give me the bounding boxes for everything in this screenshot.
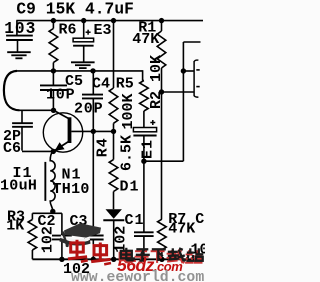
ground under C9 [7,51,31,53]
wire base to R4 node [71,130,113,132]
resistor R5 [109,88,118,123]
wire E1-C1 node to jack column [144,160,184,162]
capacitor C4 plates [82,94,103,96]
node emitter [51,149,56,154]
wire C5 bottom lead [52,90,54,110]
node rail2 / C4 column [90,68,95,73]
watermark cap tassel [63,232,67,245]
node base / C4 [91,129,96,134]
transistor Q1 collector [54,110,69,118]
svg-text:E3: E3 [94,22,112,39]
watermark site name dark text [121,251,132,258]
resistor R4 [113,131,115,159]
wire coil bottom to collector node [20,109,54,111]
svg-text:C4: C4 [92,75,110,92]
wire coil to box top [52,211,54,213]
svg-text:20P: 20P [74,101,103,118]
svg-text:10uH: 10uH [0,178,37,195]
svg-text:47K: 47K [168,220,195,237]
wire C3 bottom [92,240,94,260]
node bottom rail / C1 [141,257,146,262]
node top rail / C9 column [51,18,56,23]
watermark chong bug 1 [71,243,84,252]
wire C5 top lead [52,71,54,85]
diode D1 [106,209,122,218]
watermark graduation cap board [64,223,101,237]
svg-text:TH10: TH10 [53,181,90,198]
wire bottom ground rail [32,258,202,260]
wire R7 top [161,92,163,219]
wire D1 to bottom rail [113,220,115,259]
node top rail / E3 column [81,18,86,23]
node bottom rail / C3 [91,257,96,262]
svg-text:R5: R5 [116,75,134,92]
svg-text:100K: 100K [120,93,137,129]
jack J1 body [193,61,195,96]
wire C2 column [61,213,63,235]
transistor Q1 emitter arrow [55,142,65,151]
resistor R1 [157,31,166,68]
inductor core bar [44,162,46,201]
node top rail / R5 column [111,18,116,23]
capacitor C5 plates [40,84,67,86]
resistor R3 [31,213,33,219]
node R1/jack wire [159,89,164,94]
capacitor C1 plates [134,231,154,233]
node jack column pin1 [181,68,186,73]
ground under E3 [71,61,95,63]
wire pin1 to jack [183,70,194,72]
node coil bottom [50,209,55,214]
node rail2 / R6-C5 column [51,68,56,73]
resistor R6 [49,29,58,63]
svg-text:www.eeworld.com: www.eeworld.com [71,270,204,282]
wire C3 column [92,131,94,235]
svg-text:E1: E1 [140,139,157,159]
node bottom rail / C2 [59,257,64,262]
wire C6 bottom to emitter [21,127,23,151]
svg-text:R4: R4 [95,137,112,157]
wire rail2 corner down to R2 [142,70,144,80]
resistor R7 [158,219,167,250]
wire C4 top lead [92,71,94,94]
wire C1 top lead [143,161,145,232]
capacitor C2 plates [52,235,72,237]
wire jack column stub [183,41,200,43]
svg-text:R6: R6 [59,21,77,38]
node bottom rail / D1 [111,257,116,262]
wire E3 to ground [83,46,85,62]
wire R5 top lead [113,21,115,88]
capacitor C3 plates [84,235,104,237]
wire R2 to E1 [143,111,145,127]
svg-text:D1: D1 [120,179,140,196]
capacitor E3 plates [73,38,94,42]
wire box top edge [32,212,62,214]
svg-text:C6: C6 [3,140,21,157]
jack J1 contacts [196,69,199,71]
wire second rail [16,70,142,72]
node bottom rail / R7 [159,257,164,262]
wire E1 bottom [143,136,145,162]
svg-text:C9 15K 4.7uF: C9 15K 4.7uF [16,0,134,18]
node top rail / R1 column [159,18,164,23]
node E1/C1 junction [141,159,146,164]
transistor Q1 circle [43,113,82,152]
wire C9 lead from rail [16,21,18,35]
wire pin2 to jack [162,91,195,93]
transistor Q1 base bar [68,117,72,143]
inductor I1 coil [50,151,55,211]
wire C4 bottom lead [92,98,94,131]
transistor Q1 emitter [53,141,69,151]
wire top supply rail [16,20,203,22]
svg-text:6.5K: 6.5K [119,135,136,171]
wire C6 top lead [21,110,23,123]
capacitor E1 plates [133,128,156,132]
wire E3 top lead [83,21,85,38]
wire C1 bottom [143,236,145,259]
capacitor C6 plates [12,122,33,124]
wire C9 to ground [17,40,19,52]
watermark cap brim [59,238,90,246]
node base / R5-R4 [111,129,116,134]
coil loop outline [4,71,20,110]
resistor R2 [140,81,149,112]
polarity plus E3 [86,31,91,33]
watermark site name red shadow [120,253,131,261]
polarity plus E1 [150,122,155,124]
watermark chong bug 2 [94,246,107,255]
capacitor C9 plates [6,35,33,37]
node collector junction [51,108,56,113]
wire C2 bottom [61,239,63,259]
svg-text:47K: 47K [132,31,159,48]
watermark cap white band [61,235,91,242]
svg-text:1K: 1K [6,218,24,235]
